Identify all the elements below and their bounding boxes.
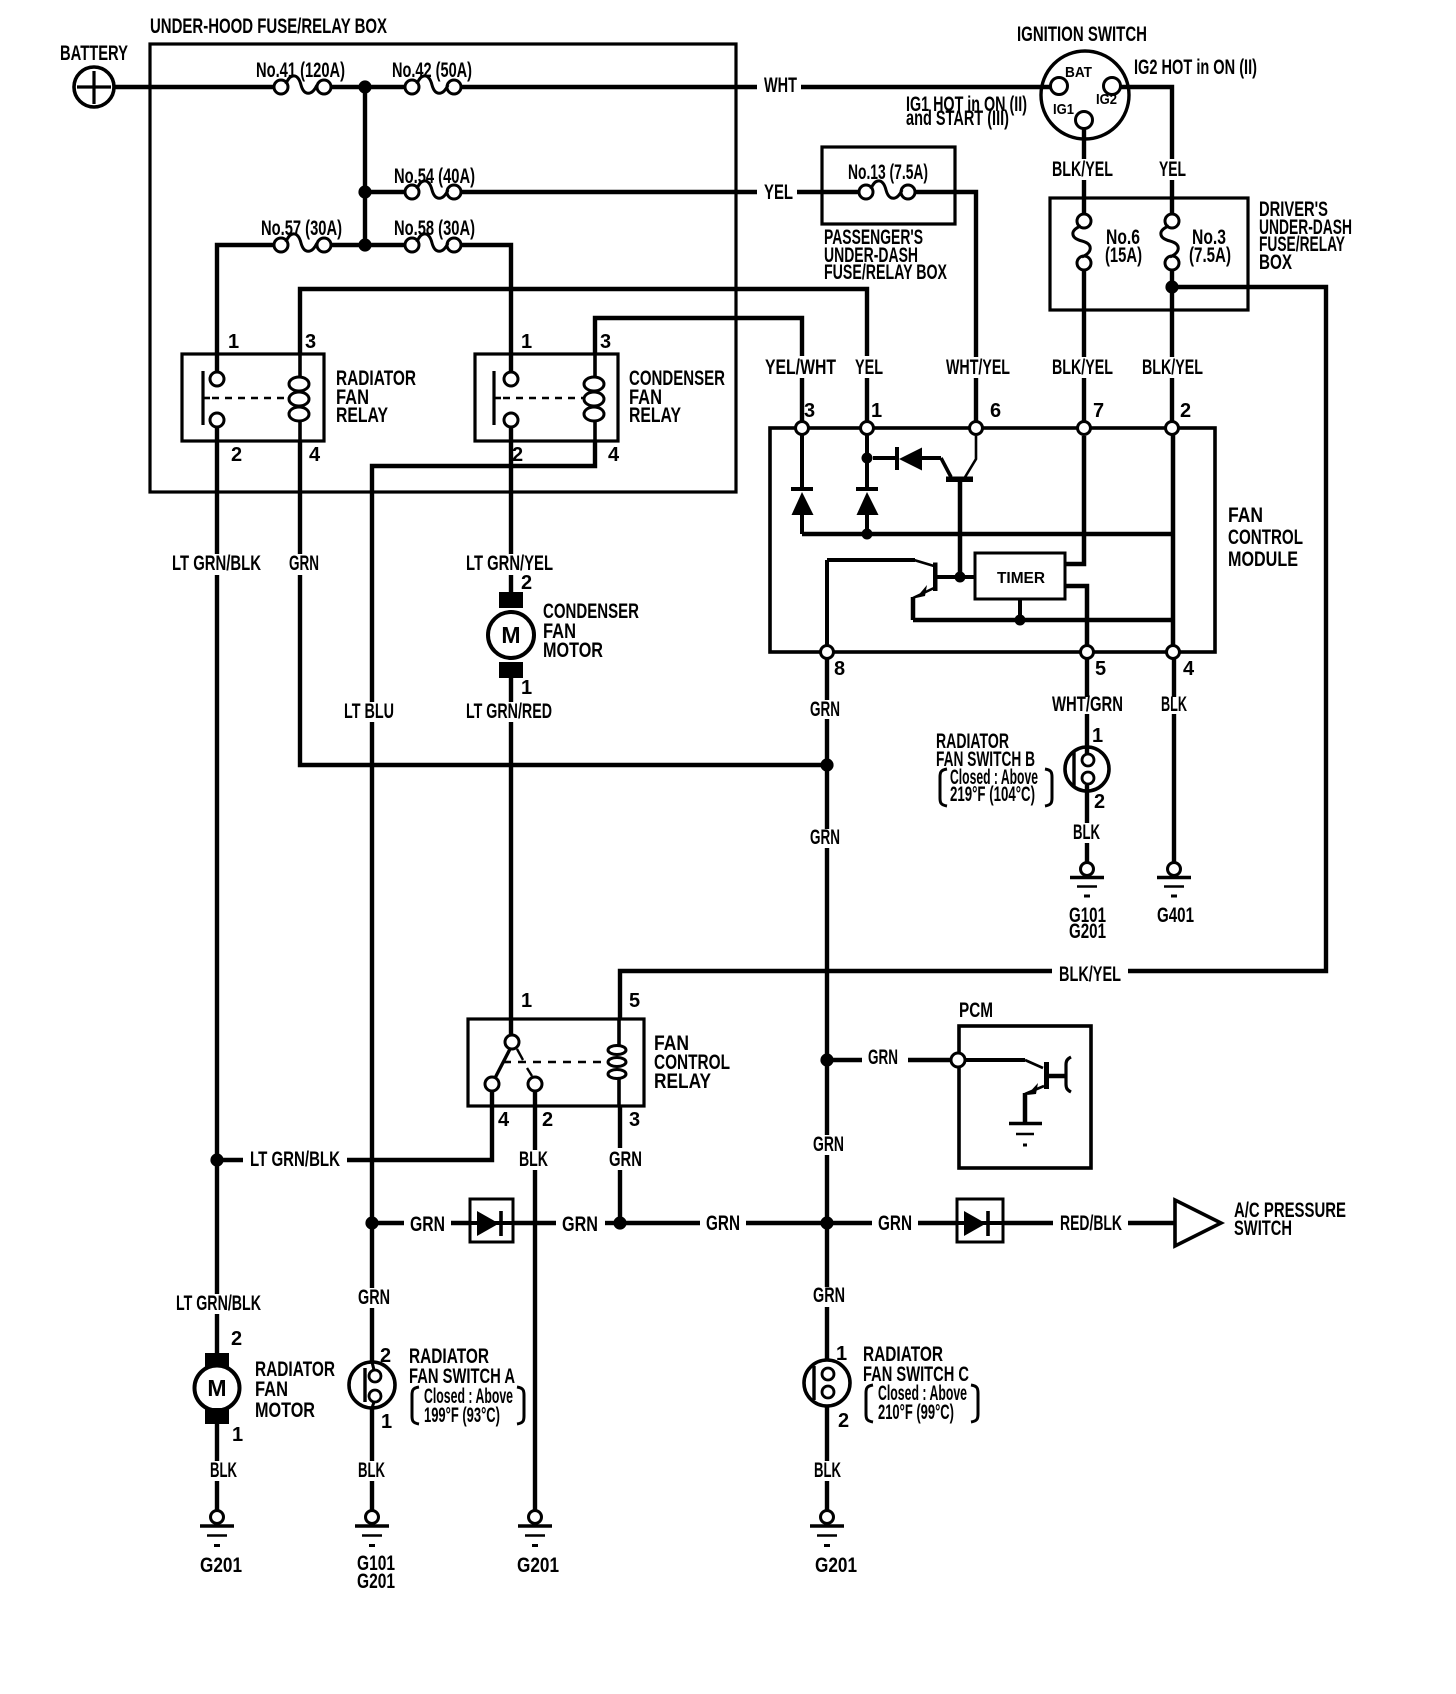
wire node A to fuse No.42 (365, 85, 405, 89)
svg-text:No.41 (120A): No.41 (120A) (256, 59, 345, 82)
node B junction (fuse No.54 tap) (358, 185, 371, 198)
wire fan control module pin 4 down to ground G401 (BLK) (1172, 658, 1176, 697)
svg-text:BLK/YEL: BLK/YEL (1059, 963, 1121, 986)
junction Q1 emitter to Q2 base line (module) (955, 572, 966, 583)
svg-text:G201: G201 (357, 1570, 395, 1593)
wire condenser fan motor pin 1 down to fan control relay pin 1 (LT GRN/RED) (509, 677, 513, 702)
fan control module pin 6 (970, 422, 983, 435)
wire radiator fan switch A pin 1 down to ground G101/G201 (BLK) (370, 1408, 374, 1461)
junction timer stub to emitter rail (module) (1015, 615, 1026, 626)
GRN bus: node J to diode box 2 (827, 1221, 872, 1225)
svg-text:BLK: BLK (210, 1459, 237, 1482)
svg-text:BLK: BLK (1073, 821, 1100, 844)
svg-text:2: 2 (231, 444, 242, 466)
svg-text:2: 2 (542, 1109, 553, 1131)
fuse No.58 (30A) symbol (405, 234, 461, 252)
svg-text:2: 2 (1180, 400, 1191, 422)
svg-text:No.58 (30A): No.58 (30A) (394, 217, 475, 240)
radiator fan motor (195, 1353, 240, 1424)
svg-text:2: 2 (521, 572, 532, 594)
wire radiator fan switch B pin 2 down to ground G101/G201 (BLK) (1085, 785, 1089, 823)
GRN bus: diode box 2 to A/C pressure switch arrow (RED/BLK) (1003, 1221, 1053, 1225)
node J junction (main GRN vertical on GRN bus) (820, 1216, 833, 1229)
wire condenser fan relay pin 4 down, left and down to radiator fan switch A (LT BLU x=372) (372, 441, 595, 702)
svg-text:199°F (93°C): 199°F (93°C) (424, 1404, 500, 1427)
svg-text:5: 5 (629, 990, 640, 1012)
bracket pair for switch B note (940, 769, 1052, 806)
svg-text:MOTOR: MOTOR (255, 1399, 315, 1422)
wire radiator fan relay pin 4 down and right to node E on GRN vertical (298, 441, 302, 554)
timer box (inside fan control module) (975, 553, 1065, 599)
svg-text:210°F (99°C): 210°F (99°C) (878, 1401, 954, 1424)
radiator fan switch B symbol (1065, 747, 1109, 791)
wire fuse No.6 down to fan control module pin 7 (BLK/YEL) (1082, 270, 1086, 357)
svg-text:G201: G201 (815, 1554, 857, 1577)
svg-text:BLK/YEL: BLK/YEL (1142, 356, 1203, 379)
svg-text:1: 1 (232, 1424, 243, 1446)
svg-text:GRN: GRN (410, 1213, 445, 1236)
svg-text:G201: G201 (1069, 920, 1106, 943)
fuse No.6 (15A) symbol (vertical) (1073, 214, 1091, 270)
ground G101/G201 (radiator fan switch A) (355, 1511, 389, 1546)
svg-text:4: 4 (1183, 658, 1195, 680)
wire fuse No.57 to node C (331, 243, 365, 247)
svg-text:M: M (207, 1375, 226, 1401)
wire WHT label to ignition switch BAT terminal (801, 85, 1050, 89)
fan control module: diode D1 (pin 3 leg) (791, 434, 814, 534)
svg-text:1: 1 (521, 677, 532, 699)
svg-text:BATTERY: BATTERY (60, 42, 128, 65)
wire fuse No.13 right to fan control module pin 6 (WHT/YEL) (914, 192, 976, 357)
A/C pressure switch arrow (1175, 1200, 1221, 1246)
fan control module pin 8 (821, 646, 834, 659)
condenser fan relay internals (494, 354, 604, 441)
svg-text:FAN: FAN (255, 1378, 288, 1401)
svg-text:1: 1 (381, 1411, 392, 1433)
condenser fan relay box (475, 354, 618, 441)
wire fan control module pin 8 down to radiator fan switch C (GRN vertical x=827) (825, 658, 829, 700)
under-hood fuse/relay box (150, 44, 736, 492)
svg-text:GRN: GRN (810, 698, 840, 721)
wire radiator fan relay pin 3 up and right to fan control module pin 1 (300, 289, 867, 356)
fan control module: diode D2 (pin 1 leg) (856, 434, 879, 534)
svg-text:and START (III): and START (III) (906, 107, 1009, 130)
wire radiator fan switch C pin 2 down to ground G201 (BLK) (825, 1406, 829, 1461)
wire fan control relay pin 3 down to node H on GRN bus (618, 1106, 622, 1148)
fan control relay box (468, 1019, 644, 1106)
PCM box (959, 1026, 1091, 1168)
wire radiator fan relay pin 2 down to radiator fan motor (LT GRN/BLK x=218) (215, 427, 219, 554)
wire fan control relay pin 2 down to ground G201 (BLK) (533, 1091, 537, 1150)
fuse No.57 (30A) symbol (274, 234, 331, 252)
svg-text:TIMER: TIMER (997, 570, 1045, 587)
diode box 1 on GRN bus (470, 1199, 513, 1242)
svg-text:YEL: YEL (1159, 158, 1186, 181)
ground G201 (radiator fan motor) (200, 1511, 234, 1546)
svg-text:2: 2 (380, 1345, 391, 1367)
svg-text:2: 2 (231, 1328, 242, 1350)
fan control module pin 5 (1081, 646, 1094, 659)
svg-text:IG1: IG1 (1053, 101, 1074, 118)
svg-text:BAT: BAT (1065, 64, 1092, 81)
svg-text:1: 1 (836, 1343, 847, 1365)
wire node F (GRN) right to PCM pin (827, 1058, 862, 1062)
svg-text:M: M (501, 622, 520, 648)
svg-text:GRN: GRN (810, 826, 840, 849)
wire fuse No.42 to WHT label (461, 85, 757, 89)
fan control module pin 4 (1167, 646, 1180, 659)
radiator fan switch A symbol (349, 1362, 395, 1408)
svg-text:GRN: GRN (868, 1046, 898, 1069)
svg-text:LT BLU: LT BLU (344, 700, 394, 723)
node G junction (fan control relay pin 4 to LT GRN/BLK) (210, 1153, 223, 1166)
svg-text:(7.5A): (7.5A) (1189, 244, 1231, 267)
wire fuse No.3 down through node D to fan control module pin 2 (BLK/YEL) (1170, 270, 1174, 357)
svg-text:(15A): (15A) (1105, 244, 1142, 267)
svg-text:GRN: GRN (878, 1212, 912, 1235)
svg-text:YEL/WHT: YEL/WHT (765, 356, 836, 379)
svg-text:1: 1 (521, 990, 532, 1012)
junction diode D2 to bottom rail (module) (862, 529, 873, 540)
wire condenser fan relay pin 3 up and right to fan control module pin 3 (595, 318, 802, 356)
svg-text:BLK/YEL: BLK/YEL (1052, 356, 1113, 379)
fan control module pin 2 (1166, 422, 1179, 435)
svg-text:4: 4 (498, 1109, 510, 1131)
fuse No.13 (7.5A) symbol (859, 181, 915, 199)
diode in diode box 1 (GRN bus) (470, 1211, 513, 1236)
node E junction (radiator relay coil GRN to main GRN vertical) (820, 758, 833, 771)
wire fuse No.41 to node A (331, 85, 365, 89)
svg-text:WHT/YEL: WHT/YEL (946, 356, 1010, 379)
wire node D right and down the far-right side (BLK/YEL) (1128, 287, 1326, 971)
svg-text:3: 3 (629, 1109, 640, 1131)
svg-text:GRN: GRN (562, 1213, 598, 1236)
svg-text:UNDER-HOOD FUSE/RELAY BOX: UNDER-HOOD FUSE/RELAY BOX (150, 15, 387, 38)
fan control module: timer stub and right-side connections (1020, 436, 1087, 646)
svg-text:GRN: GRN (813, 1284, 845, 1307)
diode in diode box 2 (GRN bus) (957, 1211, 1003, 1236)
wire node A down to node B and node C (vertical x=365) (363, 87, 367, 245)
svg-text:WHT: WHT (764, 74, 797, 97)
fuse No.54 (40A) symbol (405, 181, 461, 199)
PCM pin (951, 1053, 965, 1067)
svg-text:No.57 (30A): No.57 (30A) (261, 217, 342, 240)
junction on Q1 base line (module) (862, 453, 873, 464)
wire radiator fan relay pin 1 up to fuse No.57 row (217, 245, 274, 372)
fan control relay internals (485, 1019, 626, 1106)
node F junction (PCM GRN tap) (820, 1053, 833, 1066)
svg-text:7: 7 (1093, 400, 1104, 422)
svg-text:G201: G201 (517, 1554, 559, 1577)
ground G101/G201 (below switch B) (1070, 863, 1104, 897)
wire fan control module pin 5 down to radiator fan switch B (WHT/GRN) (1085, 658, 1089, 697)
fuse No.3 (7.5A) symbol (vertical) (1161, 214, 1179, 270)
svg-text:IG2 HOT in ON (II): IG2 HOT in ON (II) (1134, 56, 1257, 79)
wire fuse No.54 to YEL label (461, 190, 757, 194)
svg-text:BLK: BLK (814, 1459, 841, 1482)
svg-text:MOTOR: MOTOR (543, 639, 603, 662)
svg-text:GRN: GRN (813, 1133, 844, 1156)
condenser fan motor (488, 592, 534, 678)
ignition switch (1041, 51, 1129, 139)
svg-text:6: 6 (990, 400, 1001, 422)
svg-text:219°F (104°C): 219°F (104°C) (950, 783, 1035, 806)
svg-text:YEL: YEL (855, 356, 883, 379)
fan control module pin 7 (1078, 422, 1091, 435)
fan control module: transistor Q2 with timer (827, 560, 1173, 646)
fan control module pin 1 (861, 422, 874, 435)
svg-text:FUSE/RELAY BOX: FUSE/RELAY BOX (824, 261, 947, 284)
radiator fan switch C symbol (804, 1360, 850, 1406)
svg-text:BLK/YEL: BLK/YEL (1052, 158, 1113, 181)
svg-text:LT GRN/BLK: LT GRN/BLK (250, 1148, 340, 1171)
svg-text:3: 3 (305, 331, 316, 353)
svg-text:No.13 (7.5A): No.13 (7.5A) (848, 161, 928, 184)
wire fan control relay pin 4 down, left to node G on LT GRN/BLK line (347, 1091, 492, 1160)
svg-text:4: 4 (309, 444, 321, 466)
svg-text:2: 2 (1094, 791, 1105, 813)
svg-text:LT GRN/RED: LT GRN/RED (466, 700, 552, 723)
passenger's under-dash fuse/relay box (822, 147, 955, 224)
ground G401 (fan control module pin 4) (1157, 863, 1191, 897)
GRN bus: node H to node J (620, 1221, 700, 1225)
svg-text:LT GRN/BLK: LT GRN/BLK (172, 552, 261, 575)
svg-text:3: 3 (600, 331, 611, 353)
svg-text:MODULE: MODULE (1228, 548, 1298, 571)
ground G201 (fan control relay pin 2) (518, 1511, 552, 1546)
PCM internal transistor and ground (965, 1057, 1071, 1145)
wire ignition switch IG1 terminal down to fuse No.6 (BLK/YEL) (1082, 129, 1086, 159)
fan control module: transistor Q1 (941, 436, 976, 577)
wire node C to fuse No.58 (365, 243, 405, 247)
svg-text:1: 1 (228, 331, 239, 353)
fuse No.41 (120A) symbol (274, 76, 331, 94)
bracket pair for switch A note (412, 1387, 524, 1424)
wire radiator fan motor pin 1 down to ground G201 (BLK) (215, 1424, 219, 1461)
fan control module box (770, 428, 1215, 652)
node I junction (GRN bus left end) (365, 1216, 378, 1229)
svg-text:2: 2 (512, 444, 523, 466)
svg-text:GRN: GRN (609, 1148, 642, 1171)
svg-text:CONTROL: CONTROL (1228, 526, 1303, 549)
wire ignition switch IG2 terminal right and down to fuse No.3 (YEL) (1121, 87, 1172, 159)
svg-text:GRN: GRN (706, 1212, 740, 1235)
svg-text:BLK: BLK (1161, 693, 1187, 716)
diode box 2 on GRN bus (957, 1199, 1003, 1242)
wire BLK/YEL label to fan control relay pin 5 (620, 971, 1052, 1019)
ground G201 (radiator fan switch C) (810, 1511, 844, 1546)
svg-text:3: 3 (804, 400, 815, 422)
fan control module: diode bottom rail to pin2/pin4 rail (802, 532, 1173, 537)
svg-text:LT GRN/BLK: LT GRN/BLK (176, 1292, 261, 1315)
svg-text:YEL: YEL (764, 181, 793, 204)
svg-text:1: 1 (521, 331, 532, 353)
GRN bus: node I to diode box 1 (372, 1221, 404, 1225)
node A junction (fuse bus split y=87) (358, 80, 371, 93)
svg-text:RELAY: RELAY (654, 1070, 711, 1093)
wire node B to fuse No.54 (365, 190, 405, 194)
svg-text:4: 4 (608, 444, 620, 466)
wire fuse No.58 to condenser fan relay pin 1 (461, 245, 511, 372)
svg-text:2: 2 (838, 1410, 849, 1432)
svg-text:IGNITION SWITCH: IGNITION SWITCH (1017, 23, 1147, 46)
fan control module: pin2-to-pin4 vertical rail (1171, 434, 1176, 646)
svg-text:PCM: PCM (959, 999, 993, 1022)
node C junction (fuse No.57/58 tap) (358, 238, 371, 251)
radiator fan relay box (182, 354, 324, 441)
fan control module pin 3 (796, 422, 809, 435)
svg-text:BLK: BLK (519, 1148, 548, 1171)
battery symbol (74, 67, 114, 107)
svg-text:FAN: FAN (1228, 504, 1263, 527)
svg-text:RELAY: RELAY (336, 404, 388, 427)
fan control module: diode D3 feeding transistor Q1 base (873, 447, 941, 471)
GRN bus: diode box 1 to node H (513, 1221, 556, 1225)
svg-text:SWITCH: SWITCH (1234, 1217, 1292, 1240)
svg-text:WHT/GRN: WHT/GRN (1052, 693, 1123, 716)
svg-text:8: 8 (834, 658, 845, 680)
wire YEL label to fuse No.13 (797, 190, 860, 194)
bracket pair for switch C note (866, 1385, 978, 1422)
svg-text:RELAY: RELAY (629, 404, 681, 427)
node D junction (below fuse No.3) (1165, 280, 1178, 293)
radiator fan relay internals (203, 354, 309, 441)
wire condenser fan relay pin 2 down to condenser fan motor pin 2 (LT GRN/YEL) (509, 427, 513, 554)
svg-text:5: 5 (1095, 658, 1106, 680)
svg-text:GRN: GRN (289, 552, 319, 575)
fuse No.42 (50A) symbol (405, 76, 461, 94)
driver's under-dash fuse/relay box (1050, 198, 1248, 310)
node H junction (fan control relay pin 3 on GRN bus) (613, 1216, 626, 1229)
svg-text:G201: G201 (200, 1554, 242, 1577)
svg-text:G401: G401 (1157, 904, 1194, 927)
svg-text:LT GRN/YEL: LT GRN/YEL (466, 552, 553, 575)
svg-text:BLK: BLK (358, 1459, 385, 1482)
svg-text:BOX: BOX (1259, 251, 1292, 274)
svg-text:No.54 (40A): No.54 (40A) (394, 165, 475, 188)
svg-text:1: 1 (1092, 725, 1103, 747)
svg-text:1: 1 (871, 400, 882, 422)
wire battery to fuse No.41 (WHT bus y=87) (114, 85, 274, 89)
svg-text:RED/BLK: RED/BLK (1060, 1212, 1122, 1235)
svg-text:No.42 (50A): No.42 (50A) (392, 59, 472, 82)
svg-text:GRN: GRN (358, 1286, 390, 1309)
svg-text:IG2: IG2 (1096, 91, 1117, 108)
